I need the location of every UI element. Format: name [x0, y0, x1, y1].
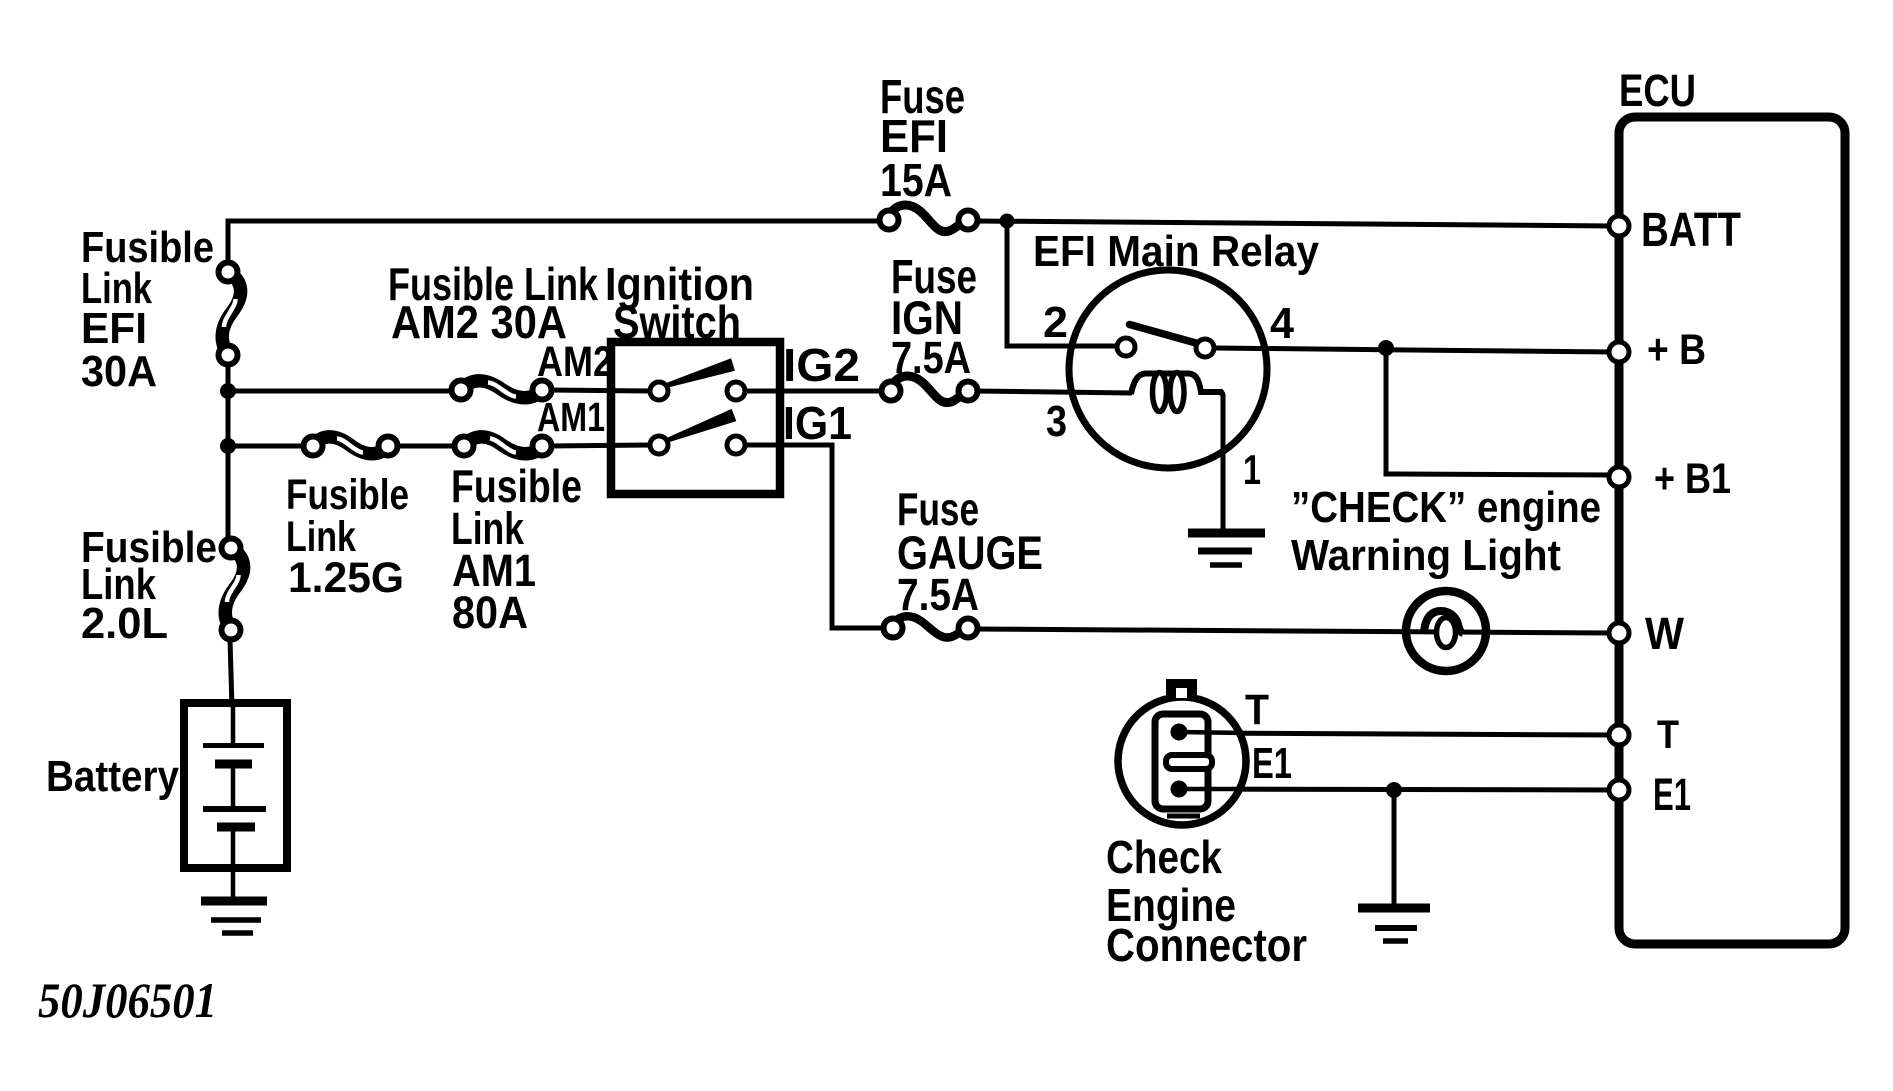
svg-text:T: T — [1245, 686, 1269, 734]
svg-text:3: 3 — [1046, 397, 1067, 446]
svg-text:Fusible: Fusible — [286, 471, 409, 519]
svg-text:+ B: + B — [1647, 326, 1706, 374]
svg-text:ECU: ECU — [1619, 65, 1696, 116]
svg-text:EFI: EFI — [81, 304, 147, 353]
svg-text:AM2: AM2 — [537, 338, 613, 386]
svg-text:15A: 15A — [880, 154, 952, 206]
svg-text:Battery: Battery — [46, 752, 179, 801]
svg-text:IG1: IG1 — [783, 397, 852, 449]
svg-text:BATT: BATT — [1641, 204, 1741, 257]
svg-text:+ B1: + B1 — [1654, 455, 1731, 503]
svg-text:1: 1 — [1243, 446, 1261, 493]
svg-text:E1: E1 — [1653, 769, 1691, 820]
svg-text:IG2: IG2 — [783, 339, 860, 391]
svg-text:AM1: AM1 — [537, 394, 605, 440]
svg-text:7.5A: 7.5A — [891, 332, 971, 383]
svg-text:7.5A: 7.5A — [897, 569, 979, 620]
svg-text:E1: E1 — [1252, 739, 1292, 788]
svg-text:EFI Main Relay: EFI Main Relay — [1033, 227, 1319, 276]
svg-text:”CHECK” engine: ”CHECK” engine — [1291, 483, 1601, 532]
svg-text:30A: 30A — [81, 347, 157, 396]
svg-text:Check: Check — [1106, 831, 1222, 883]
svg-text:W: W — [1645, 608, 1684, 659]
svg-text:Switch: Switch — [613, 296, 741, 348]
svg-text:50J06501: 50J06501 — [38, 972, 217, 1028]
svg-text:4: 4 — [1270, 299, 1295, 348]
svg-text:2: 2 — [1043, 298, 1068, 347]
svg-text:80A: 80A — [452, 587, 528, 638]
svg-text:Connector: Connector — [1106, 919, 1307, 971]
svg-text:T: T — [1657, 713, 1679, 757]
svg-text:1.25G: 1.25G — [288, 554, 404, 602]
svg-text:2.0L: 2.0L — [81, 599, 168, 648]
svg-text:Warning Light: Warning Light — [1291, 531, 1561, 580]
